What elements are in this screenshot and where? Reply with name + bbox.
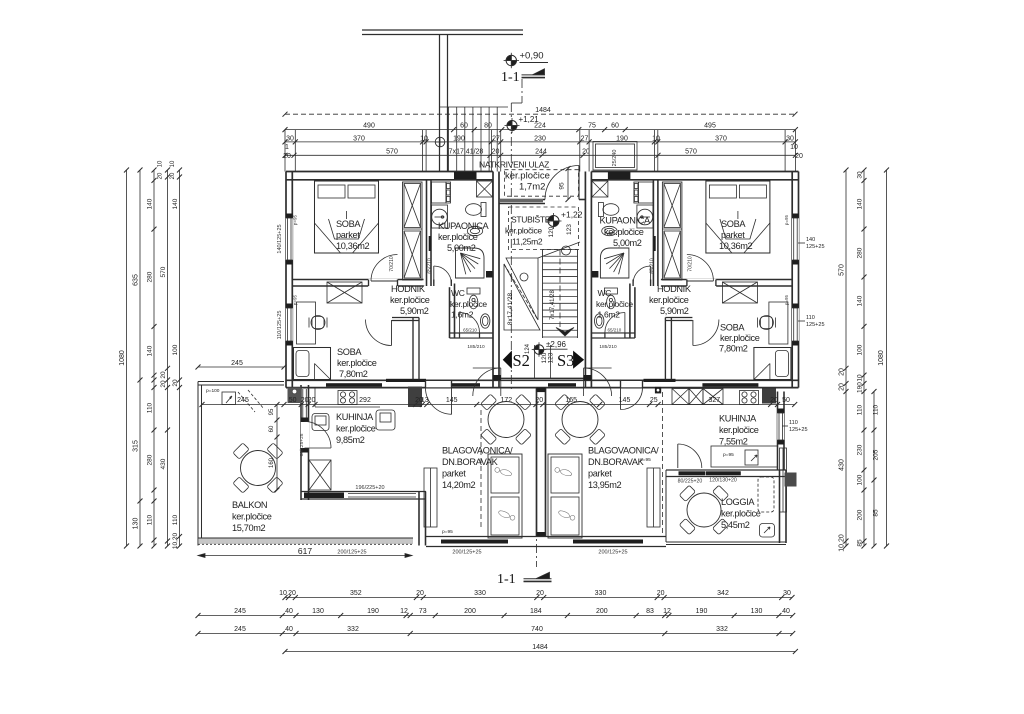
svg-text:5,45m2: 5,45m2 — [721, 520, 750, 530]
svg-text:330: 330 — [474, 590, 486, 597]
svg-text:p=95: p=95 — [442, 529, 453, 535]
svg-text:HODNIK: HODNIK — [391, 284, 426, 294]
svg-text:352: 352 — [350, 590, 362, 597]
svg-text:60/125+25: 60/125+25 — [299, 433, 305, 456]
svg-text:ker.pločice: ker.pločice — [390, 295, 430, 305]
svg-text:1-1: 1-1 — [497, 572, 516, 587]
svg-text:140/125+25: 140/125+25 — [277, 224, 283, 253]
svg-text:205: 205 — [873, 449, 880, 460]
svg-text:125+25: 125+25 — [789, 427, 808, 433]
svg-text:190: 190 — [857, 382, 864, 393]
svg-text:244: 244 — [535, 148, 547, 155]
svg-text:200: 200 — [596, 608, 608, 615]
svg-text:332: 332 — [716, 626, 728, 633]
svg-text:ker.pločice: ker.pločice — [649, 295, 689, 305]
svg-text:95: 95 — [559, 182, 566, 190]
svg-text:SOBA: SOBA — [721, 219, 746, 229]
svg-text:parket: parket — [721, 230, 745, 240]
svg-text:±2,96: ±2,96 — [546, 340, 567, 349]
svg-text:1,7m2: 1,7m2 — [519, 182, 545, 193]
svg-text:617: 617 — [298, 546, 312, 556]
svg-text:70/210: 70/210 — [687, 256, 693, 272]
svg-text:315: 315 — [133, 440, 140, 452]
svg-text:370: 370 — [715, 135, 727, 142]
svg-text:123: 123 — [548, 352, 555, 363]
svg-text:200: 200 — [464, 608, 476, 615]
svg-text:7,55m2: 7,55m2 — [719, 437, 748, 447]
svg-text:parket: parket — [588, 469, 612, 479]
svg-text:5,00m2: 5,00m2 — [447, 243, 476, 253]
svg-text:125+25: 125+25 — [806, 244, 825, 250]
svg-text:BALKON: BALKON — [232, 500, 267, 510]
svg-text:570: 570 — [160, 266, 167, 277]
svg-text:110/125+25: 110/125+25 — [277, 311, 283, 340]
svg-text:p=95: p=95 — [293, 294, 298, 305]
svg-text:75: 75 — [588, 122, 596, 129]
svg-text:ker.pločice: ker.pločice — [438, 232, 478, 242]
svg-text:184: 184 — [530, 608, 542, 615]
svg-text:ker.pločice: ker.pločice — [505, 226, 542, 236]
svg-text:10,20: 10,20 — [172, 532, 179, 549]
svg-text:12: 12 — [400, 608, 408, 615]
svg-text:7x17,41/28: 7x17,41/28 — [449, 148, 484, 155]
svg-text:ker.pločice: ker.pločice — [720, 333, 760, 343]
svg-text:635: 635 — [133, 274, 140, 286]
svg-text:570: 570 — [386, 148, 398, 155]
svg-text:245: 245 — [234, 626, 246, 633]
svg-text:20: 20 — [172, 379, 179, 387]
svg-text:342: 342 — [717, 590, 729, 597]
svg-text:185/210: 185/210 — [599, 344, 617, 350]
svg-text:1080: 1080 — [878, 350, 885, 366]
svg-text:13: 13 — [421, 397, 429, 404]
svg-text:10,36m2: 10,36m2 — [336, 241, 370, 251]
svg-text:14,20m2: 14,20m2 — [442, 480, 476, 490]
svg-text:100: 100 — [857, 474, 864, 485]
svg-text:50: 50 — [782, 397, 790, 404]
svg-text:1484: 1484 — [535, 107, 551, 114]
svg-text:+0,90: +0,90 — [520, 51, 544, 62]
svg-text:80/225+20: 80/225+20 — [678, 479, 703, 485]
svg-text:20: 20 — [536, 590, 544, 597]
svg-text:p=100: p=100 — [206, 388, 220, 394]
svg-text:495: 495 — [704, 122, 716, 129]
svg-text:1,6m2: 1,6m2 — [598, 310, 621, 320]
svg-text:15,70m2: 15,70m2 — [232, 523, 266, 533]
svg-text:20: 20 — [839, 383, 846, 391]
svg-text:20: 20 — [158, 172, 164, 179]
svg-text:65/210: 65/210 — [608, 328, 622, 333]
svg-text:160: 160 — [269, 457, 275, 468]
svg-text:20: 20 — [657, 590, 665, 597]
svg-text:140: 140 — [147, 345, 154, 356]
svg-text:95: 95 — [269, 408, 275, 415]
svg-text:570: 570 — [839, 264, 846, 276]
svg-text:parket: parket — [336, 230, 360, 240]
svg-text:230: 230 — [534, 135, 546, 142]
svg-text:BLAGOVAONICA/: BLAGOVAONICA/ — [442, 446, 513, 456]
svg-text:8x17,41/28: 8x17,41/28 — [507, 293, 514, 326]
svg-text:20: 20 — [492, 148, 500, 155]
svg-text:110: 110 — [857, 404, 864, 415]
svg-text:ker.pločice: ker.pločice — [336, 424, 376, 434]
svg-text:10: 10 — [420, 135, 428, 142]
svg-text:WC: WC — [598, 288, 612, 298]
svg-text:140: 140 — [806, 237, 815, 243]
svg-text:430: 430 — [160, 458, 167, 469]
svg-text:245: 245 — [234, 608, 246, 615]
svg-text:145: 145 — [619, 397, 631, 404]
svg-text:332: 332 — [347, 626, 359, 633]
svg-text:30: 30 — [786, 135, 794, 142]
svg-text:172: 172 — [500, 397, 512, 404]
svg-text:165: 165 — [565, 397, 577, 404]
svg-text:20: 20 — [283, 153, 291, 160]
svg-text:LOGGIA: LOGGIA — [721, 497, 755, 507]
svg-text:KUPAONICA: KUPAONICA — [600, 216, 652, 226]
svg-text:40: 40 — [782, 608, 790, 615]
svg-text:200/125+25: 200/125+25 — [598, 550, 627, 556]
svg-text:110: 110 — [147, 514, 154, 525]
svg-text:570: 570 — [685, 148, 697, 155]
svg-text:125+25: 125+25 — [806, 322, 825, 328]
svg-text:110: 110 — [806, 315, 815, 321]
svg-text:140: 140 — [857, 295, 864, 306]
svg-text:5,90m2: 5,90m2 — [400, 306, 429, 316]
svg-text:60: 60 — [611, 122, 619, 129]
svg-text:1,6m2: 1,6m2 — [451, 310, 474, 320]
svg-text:200: 200 — [857, 509, 864, 520]
svg-text:140: 140 — [857, 198, 864, 209]
svg-text:SOBA: SOBA — [720, 323, 745, 333]
svg-text:110: 110 — [147, 402, 154, 413]
svg-text:p=95: p=95 — [640, 457, 651, 463]
svg-text:11,25m2: 11,25m2 — [512, 237, 543, 247]
svg-text:245: 245 — [237, 397, 249, 404]
svg-text:190: 190 — [367, 608, 379, 615]
svg-text:BLAGOVAONICA/: BLAGOVAONICA/ — [588, 446, 659, 456]
svg-text:SOBA: SOBA — [337, 347, 362, 357]
svg-text:30: 30 — [857, 171, 864, 179]
svg-text:224: 224 — [534, 122, 546, 129]
svg-text:10: 10 — [158, 160, 164, 167]
svg-text:10: 10 — [790, 144, 798, 151]
svg-text:20: 20 — [770, 397, 778, 404]
svg-text:parket: parket — [442, 469, 466, 479]
svg-text:65/210: 65/210 — [427, 258, 433, 274]
svg-text:130: 130 — [133, 518, 140, 530]
svg-text:S3: S3 — [557, 351, 574, 370]
svg-text:20: 20 — [288, 590, 296, 597]
svg-text:130: 130 — [312, 608, 324, 615]
svg-text:280: 280 — [147, 271, 154, 282]
svg-text:200/125+25: 200/125+25 — [337, 550, 366, 556]
svg-text:DN.BORAVAK: DN.BORAVAK — [588, 457, 645, 467]
svg-text:ker.pločice: ker.pločice — [719, 425, 759, 435]
svg-text:1-1: 1-1 — [501, 70, 520, 85]
svg-text:120/130+20: 120/130+20 — [709, 478, 737, 484]
svg-text:740: 740 — [531, 626, 543, 633]
svg-text:110: 110 — [789, 420, 798, 426]
svg-text:280: 280 — [857, 247, 864, 258]
svg-text:12: 12 — [663, 608, 671, 615]
svg-text:10: 10 — [170, 160, 176, 167]
svg-text:25/240: 25/240 — [612, 150, 618, 167]
svg-text:100: 100 — [172, 344, 179, 355]
svg-text:ker.pločice: ker.pločice — [505, 171, 550, 182]
svg-text:430: 430 — [839, 459, 846, 471]
svg-text:27: 27 — [581, 135, 589, 142]
svg-text:123: 123 — [566, 224, 573, 235]
svg-text:ker.pločice: ker.pločice — [596, 299, 633, 309]
svg-text:196/225+20: 196/225+20 — [355, 485, 384, 491]
svg-text:185/210: 185/210 — [467, 344, 485, 350]
svg-text:NATKRIVENI ULAZ: NATKRIVENI ULAZ — [479, 160, 549, 170]
svg-text:40: 40 — [285, 608, 293, 615]
svg-text:ker.pločice: ker.pločice — [450, 299, 487, 309]
svg-text:WC: WC — [451, 288, 465, 298]
svg-text:1080: 1080 — [119, 350, 126, 366]
svg-text:200/125+25: 200/125+25 — [452, 550, 481, 556]
svg-text:13,95m2: 13,95m2 — [588, 480, 622, 490]
svg-text:85: 85 — [857, 539, 864, 547]
svg-text:100: 100 — [857, 344, 864, 355]
svg-text:110: 110 — [172, 514, 179, 525]
svg-text:120: 120 — [548, 226, 555, 237]
svg-text:HODNIK: HODNIK — [657, 284, 692, 294]
svg-text:370: 370 — [353, 135, 365, 142]
svg-text:245: 245 — [231, 360, 243, 367]
svg-text:10,20: 10,20 — [839, 534, 846, 552]
svg-text:20: 20 — [308, 397, 316, 404]
svg-text:80: 80 — [484, 122, 492, 129]
svg-text:30: 30 — [783, 590, 791, 597]
svg-text:KUHINJA: KUHINJA — [336, 412, 374, 422]
svg-text:83: 83 — [646, 608, 654, 615]
svg-text:73: 73 — [419, 608, 427, 615]
svg-text:1: 1 — [285, 144, 289, 151]
svg-text:+1,22: +1,22 — [561, 210, 583, 220]
svg-text:190: 190 — [696, 608, 708, 615]
svg-text:230: 230 — [857, 444, 864, 455]
svg-text:60: 60 — [269, 425, 275, 432]
svg-text:9,85m2: 9,85m2 — [336, 435, 365, 445]
svg-text:5,00m2: 5,00m2 — [613, 238, 642, 248]
svg-text:27: 27 — [492, 135, 500, 142]
svg-text:ker.pločice: ker.pločice — [721, 509, 761, 519]
svg-text:ker.pločice: ker.pločice — [337, 358, 377, 368]
svg-text:p=95: p=95 — [723, 452, 734, 458]
svg-text:30: 30 — [286, 135, 294, 142]
svg-text:20: 20 — [170, 172, 176, 179]
svg-text:20: 20 — [160, 380, 167, 388]
svg-text:SOBA: SOBA — [336, 219, 361, 229]
svg-text:10,36m2: 10,36m2 — [719, 241, 753, 251]
svg-text:292: 292 — [359, 397, 371, 404]
svg-text:20: 20 — [160, 371, 167, 379]
svg-text:327: 327 — [708, 397, 720, 404]
svg-text:5,90m2: 5,90m2 — [660, 306, 689, 316]
svg-text:280: 280 — [147, 454, 154, 465]
svg-text:STUBIŠTE: STUBIŠTE — [511, 215, 551, 225]
svg-text:p=95: p=95 — [784, 294, 789, 305]
svg-text:85: 85 — [873, 509, 880, 517]
svg-text:DN.BORAVAK: DN.BORAVAK — [442, 457, 499, 467]
svg-text:124: 124 — [525, 343, 531, 354]
svg-text:60: 60 — [460, 122, 468, 129]
svg-text:110: 110 — [873, 404, 880, 415]
svg-text:65/210: 65/210 — [463, 328, 477, 333]
svg-text:140: 140 — [172, 198, 179, 209]
svg-text:70/210: 70/210 — [389, 256, 395, 272]
svg-text:190: 190 — [453, 135, 465, 142]
svg-text:25: 25 — [650, 397, 658, 404]
svg-text:50: 50 — [289, 397, 297, 404]
svg-text:ker.pločice: ker.pločice — [604, 227, 644, 237]
svg-text:145: 145 — [446, 397, 458, 404]
svg-text:10: 10 — [857, 374, 864, 382]
svg-text:7,80m2: 7,80m2 — [719, 344, 748, 354]
svg-text:20: 20 — [839, 368, 846, 376]
svg-text:7,80m2: 7,80m2 — [339, 369, 368, 379]
svg-text:490: 490 — [363, 122, 375, 129]
svg-text:140: 140 — [147, 198, 154, 209]
svg-text:1484: 1484 — [532, 644, 548, 651]
svg-text:20: 20 — [535, 397, 543, 404]
svg-text:p=95: p=95 — [784, 214, 789, 225]
svg-text:20: 20 — [416, 590, 424, 597]
svg-text:p=95: p=95 — [293, 214, 298, 225]
svg-text:10: 10 — [279, 590, 287, 597]
svg-text:130: 130 — [751, 608, 763, 615]
svg-text:ker.pločice: ker.pločice — [232, 512, 272, 522]
svg-text:7x17,41/28: 7x17,41/28 — [550, 289, 556, 319]
svg-text:20: 20 — [795, 153, 803, 160]
svg-text:40: 40 — [285, 626, 293, 633]
svg-text:330: 330 — [595, 590, 607, 597]
svg-text:KUPAONICA: KUPAONICA — [438, 221, 490, 231]
svg-text:10: 10 — [652, 135, 660, 142]
svg-text:KUHINJA: KUHINJA — [719, 414, 757, 424]
svg-text:65/210: 65/210 — [649, 258, 655, 274]
